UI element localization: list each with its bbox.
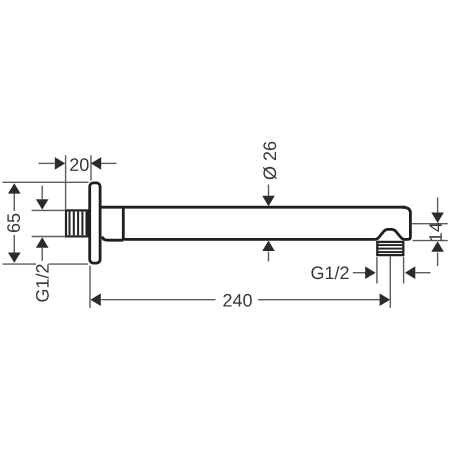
arm tube bottom edge	[123, 238, 374, 241]
dimension 14 outlet drop: extension lines	[412, 224, 448, 241]
dimension G1/2 outlet thread: left arrowhead	[365, 266, 375, 279]
dimension 240 overall length: extension lines	[90, 257, 390, 309]
dimension G1/2 outlet thread: value label "G1/2"	[311, 266, 348, 279]
dimension 20: right arrowhead	[91, 157, 101, 170]
dimension G1/2 outlet thread: extension lines	[377, 257, 404, 284]
elbow fairing hump at outlet	[374, 229, 405, 239]
wall flange escutcheon	[90, 183, 100, 263]
dimension 65: extension lines	[3, 182, 89, 264]
dimension 240: right arrowhead	[380, 293, 390, 306]
dimension 20: left arrowhead	[55, 157, 65, 170]
dimension 240: left arrowhead	[90, 293, 100, 306]
arm tube top edge	[102, 206, 406, 209]
dimension G1/2 wall thread: leader lines	[41, 186, 43, 261]
dimension 20: value label "20"	[70, 158, 88, 171]
dimension G1/2 wall thread: extension lines	[32, 210, 65, 236]
dimension Ø26: value label "Ø 26" (rotated)	[263, 142, 276, 180]
wall connection thread G1/2 (hatched, left)	[66, 210, 89, 236]
dimension Ø26: upper arrowhead	[262, 196, 275, 206]
dimension G1/2 outlet thread: right arrowhead	[405, 266, 415, 279]
arm tube right end cap	[402, 207, 410, 239]
dimension G1/2 wall thread: value label "G1/2" (rotated)	[36, 264, 49, 301]
dimension 14: lower arrowhead	[431, 241, 444, 251]
dimension Ø26: lower arrowhead	[262, 241, 275, 251]
dimension 20: extension lines	[66, 155, 91, 209]
dimension G1/2 wall thread: upper arrowhead	[36, 199, 49, 209]
dimension Ø26 tube diameter: leader lines	[268, 185, 270, 262]
dimension 240: value label "240"	[223, 294, 251, 307]
dimension 65: value label "65" (rotated)	[7, 214, 20, 232]
dimension 65: bottom arrowhead	[8, 253, 21, 263]
dimension 20: tail lines	[39, 162, 117, 164]
dimension 14: value label "14" (rotated)	[429, 223, 441, 241]
outlet thread G1/2 (hatched, bottom right)	[377, 242, 403, 255]
dimension G1/2 outlet thread: tail lines	[353, 272, 431, 274]
dimension 65: dimension line	[13, 193, 15, 253]
dimension G1/2 wall thread: lower arrowhead	[36, 237, 49, 247]
tube step divider near flange	[122, 207, 125, 240]
dimension 14: leader lines	[437, 198, 439, 267]
dimension 14: upper arrowhead	[431, 213, 444, 223]
dimension 65: top arrowhead	[8, 183, 21, 193]
base cone bottom edge with fillet	[103, 237, 124, 241]
dimension 240: dimension line	[101, 299, 379, 301]
